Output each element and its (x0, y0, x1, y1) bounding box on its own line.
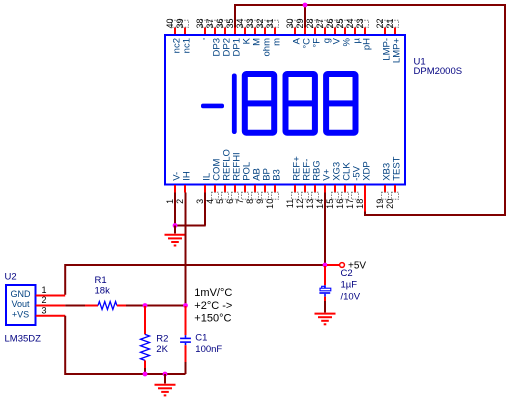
svg-text:/10V: /10V (341, 292, 361, 303)
svg-text:+2°C ->: +2°C -> (194, 300, 232, 312)
svg-text:1µF: 1µF (341, 280, 358, 291)
svg-text:7: 7 (235, 199, 245, 204)
svg-text:39: 39 (175, 18, 185, 28)
svg-text:35: 35 (225, 18, 235, 28)
svg-text:24: 24 (345, 18, 355, 28)
svg-text:U2: U2 (5, 272, 17, 283)
svg-text:1mV/°C: 1mV/°C (194, 287, 232, 299)
svg-text:Vout: Vout (11, 299, 30, 309)
svg-text:1: 1 (165, 199, 175, 204)
svg-text:IH: IH (182, 171, 193, 181)
svg-text:37: 37 (205, 18, 215, 28)
svg-text:19: 19 (375, 199, 385, 209)
svg-text:TEST: TEST (392, 156, 403, 180)
svg-text:5: 5 (215, 199, 225, 204)
svg-text:6: 6 (225, 199, 235, 204)
svg-text:18: 18 (355, 199, 365, 209)
svg-text:DPM2000S: DPM2000S (414, 66, 463, 77)
svg-text:3: 3 (41, 305, 46, 315)
svg-text:21: 21 (385, 18, 395, 28)
svg-text:38: 38 (195, 18, 205, 28)
svg-text:31: 31 (265, 18, 275, 28)
svg-text:13: 13 (305, 199, 315, 209)
svg-text:18k: 18k (95, 286, 111, 297)
svg-text:20: 20 (385, 199, 395, 209)
svg-text:GND: GND (11, 289, 32, 299)
svg-text:17: 17 (345, 199, 355, 209)
svg-text:C2: C2 (341, 268, 353, 279)
svg-text:2: 2 (41, 295, 46, 305)
svg-text:+VS: +VS (12, 309, 29, 319)
svg-text:27: 27 (315, 18, 325, 28)
svg-text:1: 1 (41, 285, 46, 295)
svg-text:28: 28 (305, 18, 315, 28)
svg-text:4: 4 (205, 199, 215, 204)
svg-text:25: 25 (335, 18, 345, 28)
svg-text:33: 33 (245, 18, 255, 28)
svg-text:C1: C1 (195, 333, 207, 344)
svg-text:R2: R2 (156, 333, 168, 344)
svg-text:16: 16 (335, 199, 345, 209)
svg-text:XDP: XDP (362, 161, 373, 181)
svg-text:B3: B3 (272, 169, 283, 181)
svg-text:22: 22 (375, 18, 385, 28)
svg-text:100nF: 100nF (195, 344, 222, 355)
svg-text:10: 10 (265, 199, 275, 209)
svg-text:40: 40 (165, 18, 175, 28)
svg-text:32: 32 (255, 18, 265, 28)
svg-text:LM35DZ: LM35DZ (5, 334, 42, 345)
svg-text:LMP+: LMP+ (392, 38, 403, 64)
svg-text:12: 12 (295, 199, 305, 209)
svg-text:11: 11 (285, 199, 295, 208)
svg-text:36: 36 (215, 18, 225, 28)
svg-text:9: 9 (255, 199, 265, 204)
svg-text:2: 2 (175, 199, 185, 204)
svg-text:14: 14 (315, 199, 325, 209)
svg-text:2K: 2K (156, 344, 168, 355)
svg-text:23: 23 (355, 18, 365, 28)
svg-text:m: m (272, 38, 283, 46)
svg-text:nc1: nc1 (182, 38, 193, 53)
svg-text:30: 30 (285, 18, 295, 28)
svg-text:3: 3 (195, 199, 205, 204)
svg-text:8: 8 (245, 199, 255, 204)
svg-text:29: 29 (295, 18, 305, 28)
svg-text:34: 34 (235, 18, 245, 28)
svg-text:26: 26 (325, 18, 335, 28)
svg-text:15: 15 (325, 199, 335, 209)
svg-text:+150°C: +150°C (194, 313, 231, 325)
svg-text:pH: pH (362, 38, 373, 50)
